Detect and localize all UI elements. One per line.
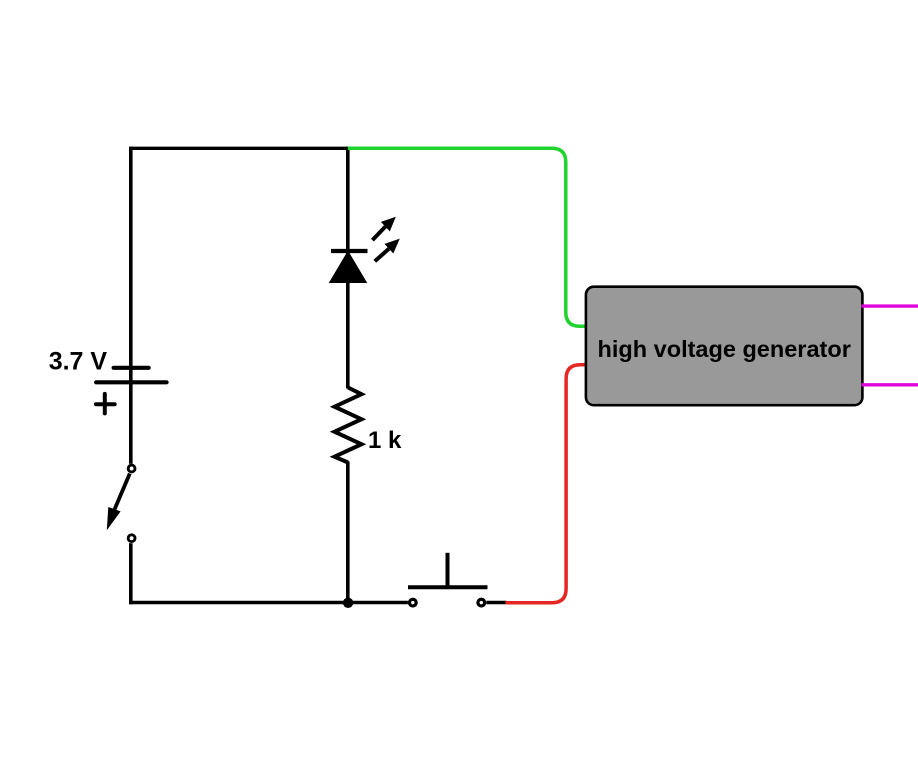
switch S1 bottom terminal: [128, 535, 135, 542]
battery B1 3.7 V: [96, 368, 167, 383]
pushbutton SW2 stem: [446, 553, 450, 588]
resistor R1 zigzag: [335, 388, 362, 463]
svg-text:high voltage generator: high voltage generator: [598, 336, 851, 362]
pushbutton SW2 bar: [408, 585, 488, 589]
wire: red from generator to pushbutton: [506, 365, 588, 603]
switch S1 top terminal: [128, 465, 135, 472]
block U1: high voltage generator box: [586, 287, 863, 406]
LED D1 emission arrow upper: [372, 217, 395, 240]
wire: left vertical (battery branch, above switch): [129, 147, 133, 464]
pushbutton SW2 left terminal: [409, 599, 416, 606]
wire: green from LED branch top to generator input: [348, 148, 587, 326]
battery plus polarity mark: [96, 394, 115, 414]
wire: magenta high-voltage output lower: [862, 383, 918, 386]
svg-text:1 k: 1 k: [368, 427, 402, 454]
LED D1 cathode bar: [331, 249, 368, 253]
wire: bottom rail from left corner to pushbutton left terminal: [129, 601, 408, 605]
LED D1 triangle (anode, pointing up): [331, 253, 366, 283]
svg-text:3.7 V: 3.7 V: [49, 347, 108, 375]
node: junction dot at bottom rail and LED branch: [343, 598, 353, 608]
wire: magenta high-voltage output upper: [862, 304, 918, 307]
pushbutton SW2 right terminal: [478, 599, 485, 606]
wire: LED/resistor branch vertical upper (through LED): [346, 147, 350, 389]
switch S1 arm with arrowhead: [107, 474, 130, 531]
wire: top horizontal from battery branch to LED branch: [129, 147, 350, 150]
LED D1 emission arrow lower: [375, 239, 400, 262]
wire: left vertical below switch to bottom rail: [129, 543, 133, 604]
wire: LED/resistor branch vertical lower: [346, 462, 350, 605]
wire: pushbutton right terminal to red wire: [486, 601, 506, 605]
